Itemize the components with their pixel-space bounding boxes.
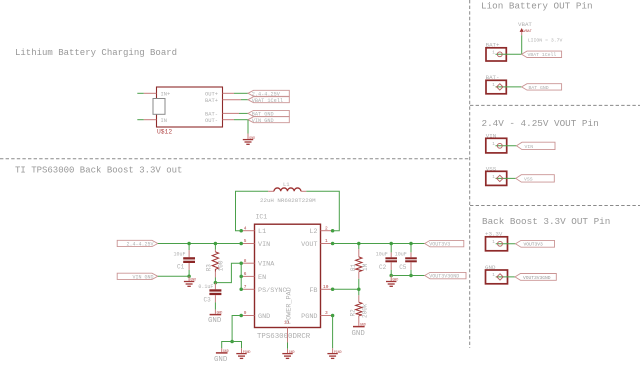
junction PS/SYNC pin (239, 288, 243, 292)
junction C5 top (409, 242, 413, 246)
svg-text:PGND: PGND (334, 350, 342, 354)
pin header VSS (486, 171, 507, 185)
junction VOUT pin (331, 242, 335, 246)
ground (earth) U$12 (243, 140, 253, 145)
svg-text:7: 7 (244, 284, 247, 290)
junction C2 top (389, 242, 393, 246)
wire VINA-EN-PS/SYNC vertical (240, 263, 242, 289)
svg-text:R3: R3 (205, 264, 212, 272)
junction VINA pin (239, 261, 243, 265)
svg-text:GND: GND (223, 349, 229, 353)
svg-text:1: 1 (325, 238, 328, 244)
ground (earth) POWER_PAD (282, 354, 292, 359)
svg-text:1: 1 (492, 50, 495, 56)
svg-text:L1: L1 (283, 181, 290, 188)
junction R1 top (357, 242, 361, 246)
pin stub VINA (241, 262, 254, 264)
svg-text:PGND: PGND (301, 313, 317, 321)
wire inductor loop left (236, 191, 269, 230)
net flag VIN out (517, 142, 556, 150)
resistor R1 (356, 244, 362, 290)
pin stub L1 (241, 230, 254, 232)
wire inductor loop right (301, 190, 306, 192)
wire OUT- (234, 119, 248, 121)
junction R3 bottom (214, 281, 218, 285)
net flag 2.4-4.25V (248, 90, 289, 97)
svg-text:TPS63000DRCR: TPS63000DRCR (257, 333, 311, 341)
svg-text:VIN GND: VIN GND (252, 118, 274, 124)
junction FB pin (331, 288, 335, 292)
pin header BAT- (486, 80, 506, 94)
junction C2 bottom (389, 274, 393, 278)
svg-text:OUT+: OUT+ (205, 92, 218, 98)
svg-text:VBAT: VBAT (518, 21, 532, 28)
pin header VIN (486, 138, 507, 153)
svg-text:Lithium Battery Charging Board: Lithium Battery Charging Board (15, 48, 177, 58)
pin stub OUT+ (223, 92, 235, 94)
wire GND to flag (496, 276, 515, 278)
junction ground split (230, 340, 234, 344)
ground (flat) GND left (216, 352, 228, 354)
net flag VIN GND input (117, 273, 158, 280)
pin symbol BAT+ (497, 52, 502, 57)
wire FB net (333, 288, 359, 290)
svg-text:C1: C1 (177, 263, 185, 270)
pin stub VIN (241, 243, 254, 245)
IC1 TPS63000 box (255, 224, 321, 327)
pin stub EN (241, 275, 254, 277)
svg-text:11: 11 (284, 320, 290, 326)
svg-text:4: 4 (244, 225, 247, 231)
wire VIN net (158, 243, 241, 245)
svg-text:1: 1 (492, 239, 495, 245)
pin header BAT+ (486, 48, 506, 61)
svg-text:C2: C2 (379, 264, 387, 271)
wire POWER_PAD green (287, 343, 289, 349)
ground stub right (241, 348, 243, 353)
svg-text:L2: L2 (309, 228, 317, 236)
wire VIN GND net (158, 275, 189, 277)
svg-text:VIN GND: VIN GND (132, 274, 153, 280)
junction VIN pin (239, 242, 243, 246)
pin stub L2 (321, 230, 333, 232)
svg-text:2.4-4.25V: 2.4-4.25V (126, 241, 153, 247)
svg-text:C3: C3 (204, 296, 212, 303)
svg-text:10uF: 10uF (395, 252, 407, 258)
svg-text:1: 1 (492, 272, 495, 278)
svg-text:1: 1 (492, 141, 495, 147)
svg-text:3: 3 (325, 310, 328, 316)
net flag BAT GND (248, 110, 289, 117)
net flag VOUT3V3 main (425, 240, 464, 247)
svg-text:C5: C5 (399, 264, 407, 271)
ground (earth) C1 (184, 282, 194, 287)
svg-text:1M: 1M (362, 263, 369, 271)
svg-text:10: 10 (323, 284, 329, 290)
svg-text:1: 1 (492, 82, 495, 88)
wire BAT+ to flag (496, 53, 522, 55)
resistor R2 (356, 289, 362, 326)
wire BAT- to flag (496, 86, 522, 88)
svg-text:GND: GND (352, 330, 366, 338)
wire VOUT GND net (391, 275, 425, 277)
pin stub VBAT (521, 32, 523, 35)
ground stub C2 (390, 276, 392, 282)
svg-text:PGND: PGND (243, 350, 251, 354)
svg-text:FB: FB (309, 287, 317, 295)
net flag VBAT 1Cell (248, 97, 289, 104)
U$12 package outline square (153, 99, 165, 115)
svg-text:R1: R1 (350, 263, 357, 271)
junction L1 pin (239, 229, 243, 233)
ground (flat) R2 (353, 326, 365, 328)
pin stub PGND (321, 315, 333, 317)
junction C1 bottom (187, 275, 191, 279)
pin symbol GND (497, 274, 503, 280)
svg-text:GND: GND (217, 311, 223, 315)
wire BAT- (239, 112, 248, 114)
divider: horizontal dashed right top (470, 104, 640, 106)
svg-text:200k: 200k (361, 303, 368, 318)
ground stub left (221, 348, 223, 352)
pin stub OUT- (223, 119, 235, 121)
svg-text:BAT GND: BAT GND (529, 85, 549, 91)
divider: horizontal dashed left (0, 158, 470, 160)
pin stub BAT- (223, 112, 240, 114)
svg-text:EN: EN (258, 274, 266, 282)
pin symbol +3.3V (498, 241, 503, 246)
pin stub BAT+ (223, 99, 242, 101)
svg-text:VBAT: VBAT (524, 30, 532, 34)
svg-text:IC1: IC1 (256, 214, 268, 221)
capacitor C3 (209, 283, 221, 314)
wire OUT+ (234, 92, 248, 94)
wire VIN GND drop (247, 120, 249, 134)
resistor R3 (212, 244, 218, 283)
svg-text:1: 1 (492, 174, 495, 180)
svg-text:2.4V - 4.25V VOUT Pin: 2.4V - 4.25V VOUT Pin (482, 118, 599, 129)
wire R3 to VINA (215, 263, 241, 282)
net flag VOUT3V3 out (516, 240, 555, 247)
capacitor C5 (405, 244, 417, 276)
ground stub POWER_PAD (287, 349, 289, 353)
svg-text:GND: GND (249, 136, 255, 140)
pin stub VOUT (321, 243, 333, 245)
svg-text:VOUT3V3: VOUT3V3 (524, 242, 544, 248)
capacitor C2 (385, 244, 397, 276)
svg-text:22uH NR6028T220M: 22uH NR6028T220M (260, 197, 316, 204)
svg-text:VOUT3V3: VOUT3V3 (429, 242, 450, 248)
svg-text:VBAT 1Cell: VBAT 1Cell (252, 98, 283, 104)
svg-text:LIION = 3.7V: LIION = 3.7V (528, 37, 563, 43)
junction R1 bottom FB node (357, 288, 361, 292)
pin symbol BAT- (497, 84, 503, 90)
svg-text:VOUT: VOUT (301, 241, 317, 249)
ground (flat) C3 (210, 314, 222, 316)
pin symbol VIN (497, 143, 502, 148)
pin stub IN+ (144, 92, 157, 94)
pin header GND (486, 270, 508, 284)
pin stub IN (144, 119, 157, 121)
svg-text:VIN: VIN (258, 241, 270, 249)
svg-text:GND: GND (258, 313, 270, 321)
wire VSS to flag (496, 177, 516, 179)
charger module U$12 (157, 87, 223, 127)
inductor L1 coil (274, 188, 301, 191)
wire VBAT vertical (521, 35, 523, 54)
svg-text:GND: GND (393, 278, 399, 282)
svg-text:IN+: IN+ (161, 92, 171, 98)
svg-text:2: 2 (325, 225, 328, 231)
svg-text:10uF: 10uF (174, 252, 186, 258)
svg-text:U$12: U$12 (157, 129, 172, 136)
svg-text:R2: R2 (349, 309, 356, 317)
net flag VOUT3V3GND out (515, 274, 556, 281)
supply symbol VBAT (518, 21, 532, 34)
svg-text:Back Boost 3.3V OUT Pin: Back Boost 3.3V OUT Pin (482, 216, 610, 227)
svg-text:OUT-: OUT- (205, 118, 218, 124)
wire GND pin to grounds (232, 316, 241, 342)
svg-text:GND: GND (190, 278, 196, 282)
junction C5 bottom (409, 274, 413, 278)
junction C1 top (187, 242, 191, 246)
ground (earth) PGND (327, 354, 337, 359)
svg-text:TI TPS63000 Back Boost 3.3V ou: TI TPS63000 Back Boost 3.3V out (15, 166, 182, 176)
wire PGND pin down (332, 316, 334, 349)
svg-text:BAT+: BAT+ (205, 98, 218, 104)
svg-text:VOUT3V3GND: VOUT3V3GND (523, 275, 551, 281)
svg-text:L1: L1 (258, 228, 266, 236)
pin stub POWER_PAD (287, 328, 289, 343)
pin stub FB (321, 288, 333, 290)
ground stub U$12 (247, 134, 249, 140)
junction PGND pin (331, 314, 335, 318)
junction EN pin (239, 275, 243, 279)
junction L2 pin (331, 229, 335, 233)
svg-text:BAT-: BAT- (205, 112, 218, 118)
svg-text:6: 6 (244, 271, 247, 277)
svg-text:GND: GND (214, 356, 228, 364)
svg-text:GND: GND (289, 350, 295, 354)
svg-text:GND: GND (208, 317, 222, 325)
junction GND pin (239, 314, 243, 318)
svg-text:POWER_PAD: POWER_PAD (286, 287, 294, 324)
pin symbol VSS (497, 175, 503, 181)
svg-text:IN: IN (161, 118, 167, 124)
divider: horizontal dashed right bottom (470, 205, 640, 207)
svg-text:10uF: 10uF (376, 252, 388, 258)
wire VOUT net (333, 243, 425, 245)
svg-text:Lion Battery OUT Pin: Lion Battery OUT Pin (481, 1, 593, 12)
svg-text:VIN: VIN (525, 144, 534, 150)
wire IN+ left (137, 92, 144, 94)
svg-text:VBAT 1Cell: VBAT 1Cell (528, 52, 557, 58)
svg-text:9: 9 (244, 310, 247, 316)
net flag 2.4-4.25V input (117, 240, 158, 247)
ground stub C1 (188, 276, 190, 281)
svg-text:VINA: VINA (258, 261, 275, 269)
capacitor C1 (183, 244, 195, 277)
net flag VIN GND (248, 117, 289, 124)
net flag BAT GND out (522, 84, 562, 91)
svg-text:GND: GND (360, 323, 366, 327)
svg-text:0.1uF: 0.1uF (198, 284, 213, 290)
pin stub GND (241, 315, 254, 317)
svg-text:PS/SYNC: PS/SYNC (258, 287, 287, 295)
wire ground split right (232, 342, 241, 349)
divider: vertical dashed (469, 0, 471, 348)
wire ground split left (222, 342, 232, 349)
ground (earth) C2 (386, 282, 396, 287)
svg-text:100: 100 (217, 260, 224, 271)
pin stub PS/SYNC (241, 288, 254, 290)
junction R3 top (214, 242, 218, 246)
svg-text:8: 8 (244, 258, 247, 264)
net flag VSS out (516, 175, 555, 183)
wire BAT+ (241, 99, 248, 101)
net flag VBAT 1Cell out (522, 51, 562, 58)
svg-text:5: 5 (244, 238, 247, 244)
pin header +3.3V (486, 237, 508, 251)
wire VIN to flag (496, 145, 517, 147)
ground stub PGND (332, 348, 334, 353)
ground (earth) right (236, 354, 246, 359)
wire IN left (137, 119, 144, 121)
svg-text:VOUT3V3GND: VOUT3V3GND (429, 274, 459, 280)
svg-text:VSS: VSS (524, 176, 533, 182)
wire +3.3V to flag (496, 243, 516, 245)
net flag VOUT3V3GND main (425, 272, 466, 279)
